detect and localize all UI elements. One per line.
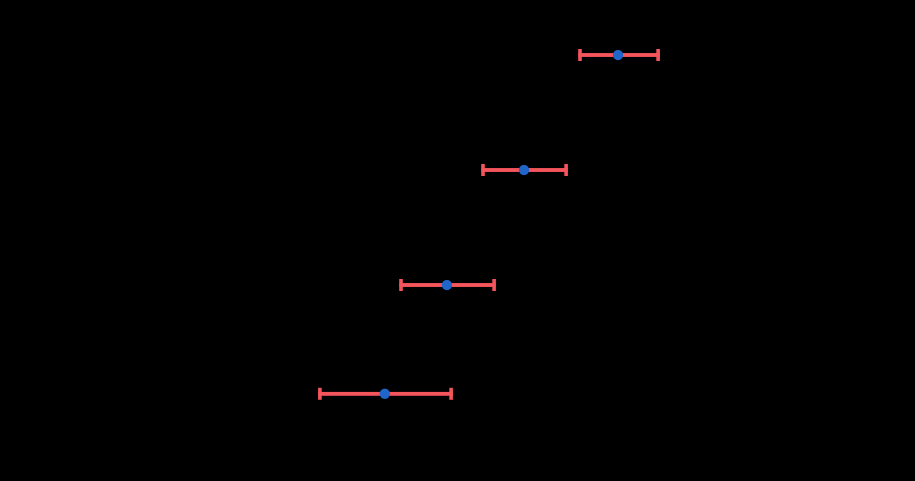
error bar 3	[399, 279, 496, 291]
error bar 4 horizontal line	[318, 392, 453, 396]
error bar 4 left cap	[318, 388, 322, 400]
error bar 2	[481, 164, 568, 176]
error bar 1 left cap	[578, 49, 582, 61]
error bar 1 right cap	[656, 49, 660, 61]
data point 2	[519, 165, 529, 175]
error bar 2 horizontal line	[481, 168, 568, 172]
error bar 4 right cap	[449, 388, 453, 400]
error bar 3 right cap	[492, 279, 496, 291]
data point 4	[380, 389, 390, 399]
error bar 1 (top)	[578, 49, 660, 61]
data point 1	[613, 50, 623, 60]
error bar 3 left cap	[399, 279, 403, 291]
error bar 2 right cap	[564, 164, 568, 176]
error bar 2 left cap	[481, 164, 485, 176]
data point 3	[442, 280, 452, 290]
error bar 4 (bottom)	[318, 388, 453, 400]
error bar 1 horizontal line	[578, 53, 660, 57]
error bar 3 horizontal line	[399, 283, 496, 287]
